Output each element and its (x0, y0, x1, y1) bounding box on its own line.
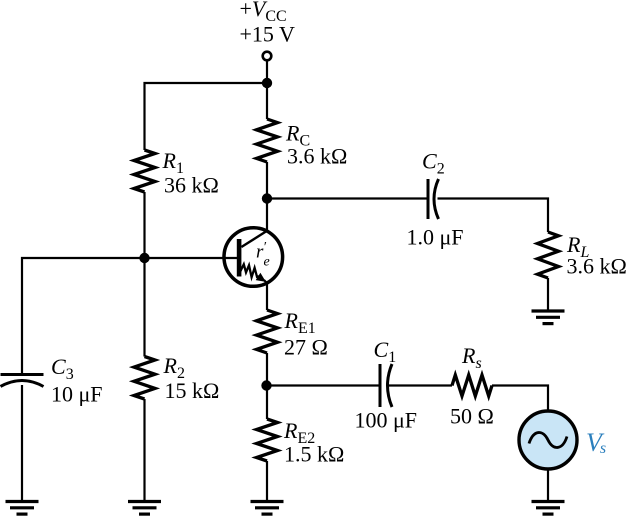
resistor RE1 (257, 310, 278, 353)
svg-text:15 kΩ: 15 kΩ (165, 378, 220, 403)
node top (VCC rail junction) (262, 78, 272, 88)
transistor Q1 (224, 228, 283, 287)
node emitter divider (261, 380, 271, 390)
svg-text:3.6 kΩ: 3.6 kΩ (287, 144, 347, 169)
svg-text:+15 V: +15 V (240, 22, 296, 47)
ground (RE2) (251, 502, 284, 515)
svg-text:100 μF: 100 μF (355, 408, 418, 433)
resistor R2 (134, 357, 155, 400)
svg-text:1.5 kΩ: 1.5 kΩ (284, 442, 344, 467)
wire R1 bottom to base node to R2 top (143, 192, 145, 357)
wire RE2 bottom to ground (266, 461, 268, 501)
svg-text:27 Ω: 27 Ω (284, 335, 328, 360)
source Vs (519, 411, 577, 469)
svg-text:e: e (264, 255, 270, 270)
capacitor C3 (1, 375, 44, 387)
wire RC bottom to collector node to transistor (266, 162, 268, 231)
ground (R2) (128, 502, 161, 515)
wire C3 to ground (21, 385, 23, 501)
resistor R1 (134, 150, 155, 192)
wire R2 bottom to ground (143, 399, 145, 501)
capacitor C2 (428, 179, 439, 219)
wire C2 to RL top (438, 199, 549, 233)
capacitor C1 (380, 364, 392, 407)
svg-text:36 kΩ: 36 kΩ (164, 173, 219, 198)
wire emitter node to C1 (267, 384, 380, 386)
wire Rs to Vs top (492, 386, 548, 410)
ground (Vs) (532, 502, 565, 515)
wire RL bottom to ground (547, 278, 549, 311)
svg-text:10 μF: 10 μF (51, 382, 103, 407)
wire Vs bottom to ground (547, 471, 549, 502)
resistor RL (538, 232, 559, 278)
ground (RL) (532, 311, 565, 324)
svg-text:1.0 μF: 1.0 μF (407, 225, 464, 250)
wire collector node to C2 (267, 197, 428, 199)
VCC terminal (263, 52, 272, 61)
resistor RC (257, 119, 278, 162)
wire C1 to Rs (389, 384, 453, 386)
wire VCC terminal to top node (266, 61, 268, 120)
node base (139, 253, 149, 263)
svg-text:3.6 kΩ: 3.6 kΩ (567, 254, 627, 279)
resistor RE2 (257, 419, 278, 461)
wire top node to R1 branch (145, 83, 268, 150)
wire base node to transistor base (22, 258, 238, 375)
node collector (262, 193, 272, 203)
ground (C3) (6, 502, 39, 515)
wire transistor emitter to RE1 (266, 283, 268, 310)
resistor Rs (452, 375, 492, 396)
wire RE1 bottom to emitter node to RE2 top (266, 353, 268, 419)
svg-text:50 Ω: 50 Ω (450, 404, 494, 429)
